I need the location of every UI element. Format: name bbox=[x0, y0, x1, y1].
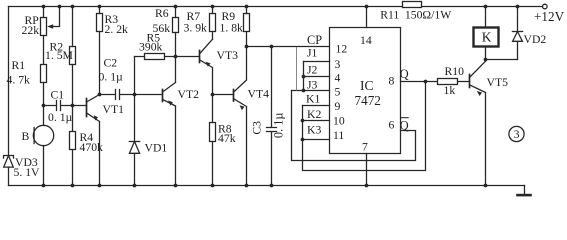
svg-text:0. 1µ: 0. 1µ bbox=[48, 111, 73, 124]
resistor R4 bbox=[70, 132, 76, 150]
svg-text:J1: J1 bbox=[307, 47, 318, 60]
svg-text:47k: 47k bbox=[218, 132, 236, 145]
resistor R10 bbox=[438, 79, 458, 85]
node terminal +12V bbox=[543, 4, 548, 9]
svg-text:2. 2k: 2. 2k bbox=[105, 23, 129, 36]
svg-text:IC: IC bbox=[360, 78, 374, 93]
relay K bbox=[474, 28, 499, 47]
wire pin 7 bbox=[366, 154, 368, 186]
svg-text:7: 7 bbox=[362, 140, 368, 153]
resistor R1 bbox=[41, 65, 47, 83]
svg-text:C2: C2 bbox=[104, 57, 118, 70]
svg-text:7472: 7472 bbox=[355, 93, 381, 108]
transistor VT2 bbox=[162, 90, 164, 102]
svg-text:470k: 470k bbox=[80, 141, 104, 154]
wire R6 column bbox=[175, 7, 177, 57]
wire Qbar feedback to J bbox=[292, 91, 416, 161]
svg-text:VT3: VT3 bbox=[217, 49, 239, 62]
svg-text:5. 1V: 5. 1V bbox=[14, 166, 41, 179]
resistor R6 bbox=[173, 18, 179, 33]
svg-text:10: 10 bbox=[333, 114, 345, 127]
wire J tie vertical bbox=[303, 62, 305, 91]
wire pin 3 J1 bbox=[304, 61, 330, 63]
wire pin 9 K1 bbox=[303, 105, 330, 107]
wire R1 to C1 node to mic bbox=[43, 83, 45, 186]
wire relay bottom to VD2 bbox=[486, 59, 518, 61]
svg-text:12: 12 bbox=[336, 43, 348, 56]
capacitor C1 bbox=[44, 101, 87, 111]
potentiometer RP bbox=[41, 18, 47, 36]
wire R9 column top bbox=[246, 7, 248, 14]
circled number 3 bbox=[509, 126, 524, 141]
svg-text:VD1: VD1 bbox=[145, 142, 168, 155]
svg-text:Q: Q bbox=[400, 67, 409, 81]
resistor R8 bbox=[210, 123, 216, 142]
resistor R9 bbox=[244, 14, 250, 32]
svg-text:K2: K2 bbox=[307, 108, 321, 121]
wire CP to J3 faint vertical bbox=[296, 48, 298, 91]
wire K tie to Q feedback bbox=[303, 82, 426, 171]
svg-text:390k: 390k bbox=[139, 41, 163, 54]
svg-text:0. 1µ: 0. 1µ bbox=[99, 71, 124, 84]
svg-text:VT2: VT2 bbox=[178, 88, 200, 101]
svg-text:J3: J3 bbox=[307, 79, 318, 92]
zener diode VD3 bbox=[4, 156, 14, 159]
diode VD1 bbox=[134, 57, 136, 186]
svg-text:R6: R6 bbox=[155, 7, 169, 20]
resistor R11 bbox=[403, 2, 422, 8]
wire CP net bbox=[247, 46, 330, 48]
wire R2 column with R4 bbox=[72, 7, 74, 186]
wire R5 net bbox=[135, 56, 200, 58]
resistor R5 bbox=[145, 54, 165, 60]
svg-text:B: B bbox=[22, 130, 30, 143]
svg-text:8: 8 bbox=[389, 75, 395, 88]
svg-text:VT1: VT1 bbox=[103, 103, 125, 116]
wire R8 leads bbox=[212, 95, 214, 186]
IC U1 7472 bbox=[330, 28, 401, 154]
transistor VT5 bbox=[469, 75, 471, 88]
wire pin 5 J3 bbox=[292, 90, 330, 92]
wire RP wiper bbox=[50, 7, 60, 27]
svg-text:4. 7k: 4. 7k bbox=[7, 74, 31, 87]
svg-text:C1: C1 bbox=[51, 89, 65, 102]
wire pin 14 bbox=[366, 7, 368, 28]
wire R7 column bbox=[212, 7, 214, 40]
node junction dots bbox=[42, 5, 520, 188]
wire top supply rail bbox=[9, 6, 543, 8]
transistor VT1 bbox=[86, 99, 88, 117]
svg-text:22k: 22k bbox=[22, 24, 40, 37]
svg-text:+12V: +12V bbox=[534, 9, 565, 24]
svg-text:3: 3 bbox=[514, 129, 520, 141]
svg-text:K1: K1 bbox=[306, 93, 320, 106]
svg-text:3. 9k: 3. 9k bbox=[184, 22, 208, 35]
resistor R2 bbox=[70, 47, 76, 65]
resistor R3 bbox=[97, 14, 103, 32]
svg-text:VD2: VD2 bbox=[524, 33, 547, 46]
wire Q output bbox=[401, 81, 438, 83]
svg-text:3: 3 bbox=[335, 58, 341, 71]
wire left edge column bbox=[8, 7, 10, 186]
wire bottom ground rail bbox=[9, 185, 525, 187]
svg-text:J2: J2 bbox=[307, 64, 318, 77]
wire pin 11 K3 bbox=[303, 139, 330, 141]
svg-text:C3: C3 bbox=[251, 121, 264, 135]
diode VD2 bbox=[517, 7, 519, 60]
svg-text:R11: R11 bbox=[380, 9, 399, 22]
svg-text:4: 4 bbox=[335, 72, 341, 85]
microphone B bbox=[33, 125, 53, 145]
svg-text:5: 5 bbox=[335, 86, 341, 99]
svg-text:150Ω/1W: 150Ω/1W bbox=[405, 9, 452, 22]
svg-text:R1: R1 bbox=[12, 59, 26, 72]
wire pin 10 K2 bbox=[303, 120, 330, 122]
svg-text:R10: R10 bbox=[445, 65, 465, 78]
resistor R7 bbox=[210, 14, 216, 32]
svg-text:1. 8k: 1. 8k bbox=[220, 22, 244, 35]
svg-text:1k: 1k bbox=[444, 84, 456, 97]
capacitor C2 bbox=[100, 90, 163, 100]
wire relay column bbox=[485, 7, 487, 60]
svg-text:6: 6 bbox=[389, 119, 395, 132]
svg-text:VT4: VT4 bbox=[248, 88, 270, 101]
svg-text:14: 14 bbox=[360, 34, 372, 47]
label Qbar overbar bbox=[400, 117, 408, 119]
wire R3 column bbox=[99, 7, 101, 95]
svg-text:9: 9 bbox=[335, 100, 341, 113]
svg-text:1. 5M: 1. 5M bbox=[45, 49, 74, 62]
transistor VT3 bbox=[199, 51, 201, 63]
svg-text:VT5: VT5 bbox=[487, 76, 509, 89]
ground bbox=[524, 186, 526, 195]
wire R10 to VT5 base bbox=[458, 81, 470, 83]
svg-text:0. 1µ: 0. 1µ bbox=[272, 113, 286, 139]
wire pin 4 J2 bbox=[304, 76, 330, 78]
svg-text:K3: K3 bbox=[307, 124, 321, 137]
transistor VT4 bbox=[233, 90, 235, 102]
svg-text:56k: 56k bbox=[153, 22, 171, 35]
wire RP leads bbox=[43, 7, 45, 65]
svg-text:K: K bbox=[482, 29, 492, 44]
svg-text:11: 11 bbox=[333, 129, 344, 142]
svg-text:Q: Q bbox=[400, 118, 409, 132]
svg-text:CP: CP bbox=[307, 33, 322, 47]
capacitor C3 bbox=[267, 47, 277, 186]
